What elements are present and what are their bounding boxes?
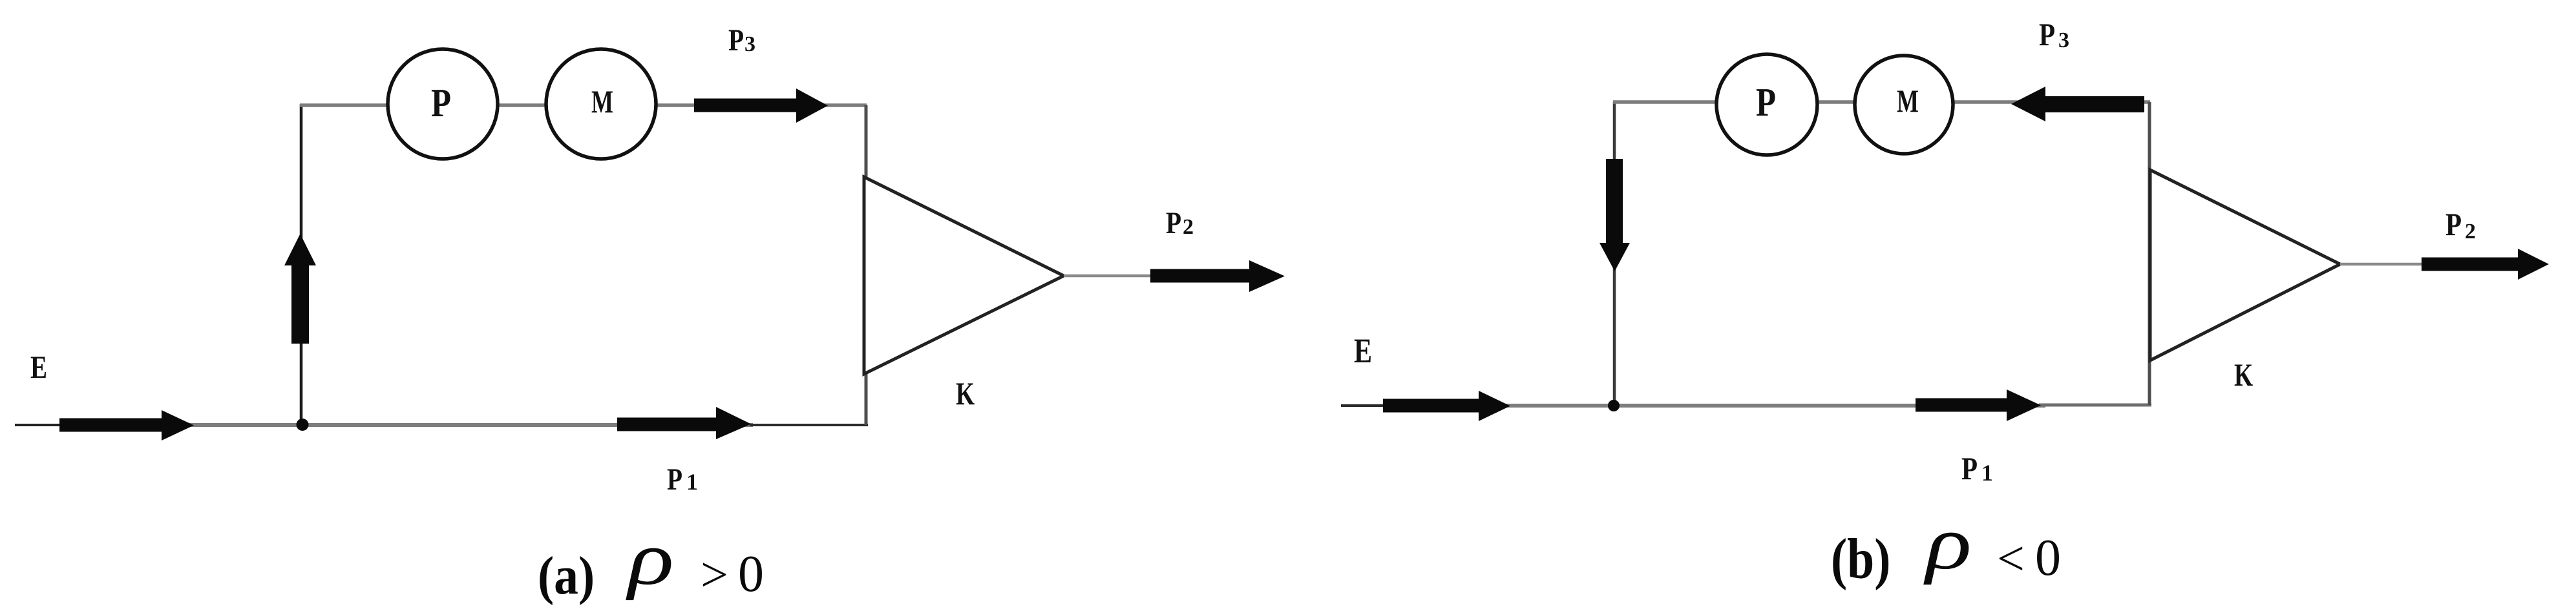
- wire bottom main (b): [1383, 404, 2045, 408]
- svg-text:0: 0: [2035, 530, 2061, 586]
- svg-text:0: 0: [738, 546, 764, 603]
- wire bottom main (a): [61, 423, 753, 427]
- wire top (a): [300, 103, 867, 107]
- wire right vertical (b): [2148, 102, 2151, 405]
- caption (a): [538, 516, 764, 606]
- svg-text:3: 3: [2058, 28, 2069, 52]
- junction node dot (b): [1608, 400, 1620, 411]
- wire left vertical (b): [1613, 102, 1616, 406]
- svg-text:2: 2: [1183, 215, 1194, 239]
- arrow P3 flow left-pointing (b): [2011, 87, 2144, 121]
- svg-text:E: E: [30, 349, 47, 385]
- wire right vertical (a): [865, 105, 868, 425]
- amplifier triangle K (a): [864, 177, 1064, 374]
- caption (b): [1831, 501, 2061, 591]
- wire output (a): [1064, 274, 1163, 278]
- pump circle P (a): [388, 49, 498, 159]
- svg-text:E: E: [1354, 332, 1372, 370]
- svg-text:(b): (b): [1831, 526, 1890, 590]
- arrow P1 flow (a): [617, 407, 751, 439]
- svg-text:P: P: [1166, 206, 1181, 240]
- svg-text:P: P: [1961, 450, 1978, 486]
- motor circle M (b): [1855, 56, 1953, 154]
- svg-text:ρ: ρ: [1923, 501, 1972, 585]
- svg-text:M: M: [1897, 83, 1919, 119]
- wire bottom-right segment (b): [2039, 404, 2151, 407]
- svg-text:K: K: [956, 376, 975, 411]
- arrow P2 flow (b): [2422, 249, 2549, 280]
- svg-text:(a): (a): [538, 546, 595, 606]
- wire bottom-left input segment (b): [1341, 404, 1386, 407]
- arrow P1 flow (b): [1916, 389, 2041, 421]
- arrow P3 flow (a): [694, 88, 828, 123]
- svg-text:>: >: [701, 548, 728, 602]
- svg-text:1: 1: [686, 469, 698, 495]
- svg-text:P: P: [2039, 16, 2055, 52]
- svg-text:P: P: [431, 81, 451, 125]
- wire top (b): [1613, 100, 2150, 104]
- arrow down on left branch (b): [1599, 159, 1630, 271]
- arrow up on left branch (a): [284, 234, 316, 344]
- svg-text:P: P: [728, 23, 744, 57]
- wire left vertical (a): [300, 104, 303, 425]
- amplifier triangle K (b): [2150, 170, 2340, 360]
- pump circle P (b): [1716, 54, 1817, 155]
- svg-text:P: P: [1756, 80, 1776, 125]
- arrow E flow (b): [1383, 391, 1510, 421]
- wire bottom-right segment (a): [750, 424, 868, 426]
- svg-text:P: P: [667, 462, 682, 496]
- wire output (b): [2340, 263, 2427, 266]
- svg-text:3: 3: [744, 32, 755, 56]
- svg-text:K: K: [2234, 357, 2254, 393]
- motor circle M (a): [546, 49, 656, 159]
- wire bottom-left input segment: [15, 424, 65, 426]
- svg-text:P: P: [2445, 206, 2462, 242]
- svg-text:M: M: [591, 84, 613, 119]
- arrow P2 flow (a): [1150, 260, 1285, 292]
- svg-text:<: <: [1997, 532, 2025, 586]
- svg-text:2: 2: [2465, 220, 2476, 243]
- svg-text:1: 1: [1981, 460, 1993, 486]
- arrow E flow (a): [59, 410, 194, 440]
- junction node dot (a): [297, 419, 309, 431]
- svg-text:ρ: ρ: [626, 516, 674, 601]
